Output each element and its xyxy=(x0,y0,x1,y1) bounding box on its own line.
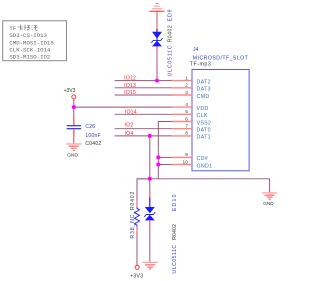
svg-text:R0402: R0402 xyxy=(172,224,178,240)
ground (under C26) xyxy=(66,144,81,159)
svg-text:DAT2: DAT2 xyxy=(197,79,211,85)
power +3V3 (bottom) xyxy=(130,265,143,279)
wire pin3 xyxy=(115,94,172,96)
svg-text:MICROSD/TF_SLOT: MICROSD/TF_SLOT xyxy=(193,56,249,62)
svg-text:IO15: IO15 xyxy=(124,90,136,96)
svg-text:CD#: CD# xyxy=(197,156,209,162)
svg-text:+3V3: +3V3 xyxy=(64,88,76,94)
wire right ground drop xyxy=(269,179,271,193)
svg-text:J4: J4 xyxy=(193,47,199,53)
wire R38 to +3V3 xyxy=(136,227,138,266)
pin stubs J4 xyxy=(172,81,193,165)
svg-text:R0402: R0402 xyxy=(167,25,173,43)
svg-text:R38_NC_R0402: R38_NC_R0402 xyxy=(130,191,136,239)
svg-text:ED10: ED10 xyxy=(172,193,178,211)
ground (top, inverted) xyxy=(150,3,165,11)
svg-text:C26: C26 xyxy=(85,124,95,130)
pin names J4 xyxy=(197,79,213,169)
wire ED9 vertical xyxy=(156,11,158,80)
power +3V3 (top-left) xyxy=(64,88,76,107)
wire pin9 xyxy=(158,156,171,158)
svg-text:IO13: IO13 xyxy=(124,83,136,89)
wire pin6 VSS2 xyxy=(158,122,171,179)
svg-text:GND: GND xyxy=(263,201,274,207)
wire pin1 xyxy=(115,80,172,82)
svg-text:C0402: C0402 xyxy=(85,141,101,147)
node ED10/ground bus xyxy=(148,177,152,181)
note box xyxy=(3,21,67,61)
wire C26 to GND xyxy=(73,129,75,144)
wire pin10 xyxy=(158,164,171,166)
svg-text:VSS2: VSS2 xyxy=(197,120,212,126)
svg-text:CMD-MOSI-IO15: CMD-MOSI-IO15 xyxy=(9,39,54,46)
svg-text:VDD: VDD xyxy=(197,106,209,112)
svg-text:TF: TF xyxy=(9,25,16,32)
svg-text:CLK-SCK-IO14: CLK-SCK-IO14 xyxy=(9,47,51,54)
ground (under ED10) xyxy=(143,262,158,269)
node pin10/VSS2 xyxy=(156,163,160,167)
wire ground bus horizontal xyxy=(137,178,270,180)
wire pin4 VDD rail xyxy=(74,106,172,108)
svg-text:GND1: GND1 xyxy=(197,163,213,169)
node pin8/ED10 xyxy=(148,134,152,138)
capacitor C26 xyxy=(67,126,81,129)
svg-text:IO14: IO14 xyxy=(125,109,137,115)
wire pin2 xyxy=(115,87,172,89)
svg-text:IO4: IO4 xyxy=(125,131,134,137)
node pin9/VSS2 xyxy=(156,155,160,159)
svg-text:ULC0511C: ULC0511C xyxy=(167,45,173,77)
wire pin5 xyxy=(115,113,172,115)
node +3V3/VDD/C26 xyxy=(72,105,76,109)
svg-text:SD3-MISO-IO2: SD3-MISO-IO2 xyxy=(9,54,51,61)
ground (right) xyxy=(262,193,277,207)
svg-text:SD3-CS-IO13: SD3-CS-IO13 xyxy=(9,32,47,39)
svg-text:ED9: ED9 xyxy=(167,9,173,22)
wire ED10 branch vertical xyxy=(149,136,151,207)
svg-text:GND: GND xyxy=(67,153,78,159)
diode ED10 (TVS) xyxy=(144,207,155,220)
node ED9/pin1 xyxy=(155,79,159,83)
resistor R38 xyxy=(135,207,140,226)
wire ED10 to ground xyxy=(149,220,151,261)
svg-text:100nF: 100nF xyxy=(85,133,100,139)
wire R38 branch xyxy=(137,179,150,207)
pin numbers J4 xyxy=(183,75,189,165)
wire pin8 xyxy=(115,135,172,137)
svg-text:TF-mp3: TF-mp3 xyxy=(190,62,211,68)
svg-text:+3V3: +3V3 xyxy=(130,274,143,280)
svg-text:IO2: IO2 xyxy=(125,123,134,129)
svg-text:ULC0511C: ULC0511C xyxy=(172,244,178,273)
svg-text:DAT0: DAT0 xyxy=(197,128,211,134)
svg-text:DAT3: DAT3 xyxy=(197,87,211,93)
connector J4 box xyxy=(190,47,249,171)
diode ED9 (TVS) xyxy=(151,32,162,47)
svg-text:CLK: CLK xyxy=(197,113,208,119)
svg-text:CMD: CMD xyxy=(197,94,210,100)
svg-text:DAT1: DAT1 xyxy=(197,135,211,141)
wire +3V3 to C26 xyxy=(73,107,75,125)
svg-text:IO12: IO12 xyxy=(124,76,136,82)
wire pin7 xyxy=(115,128,172,130)
